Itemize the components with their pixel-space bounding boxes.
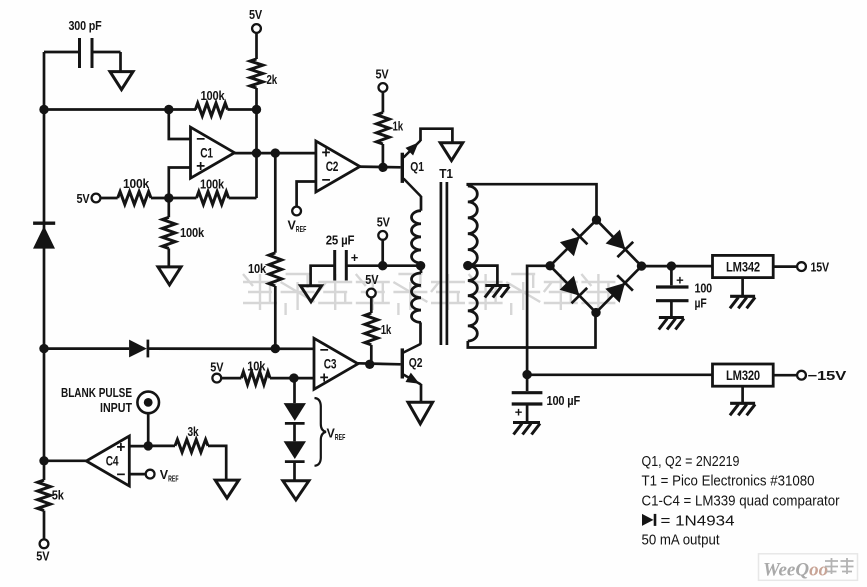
svg-text:1k: 1k [393,119,404,134]
transistor Q2 [401,344,423,385]
svg-text:−15V: −15V [808,368,847,383]
diode bridge D-BR [605,275,633,303]
svg-text:+: + [351,250,359,265]
svg-text:5V: 5V [77,191,90,206]
terminal 5V (1k Q2) [365,272,378,297]
svg-text:T1 = Pico Electronics #31080: T1 = Pico Electronics #31080 [642,473,815,489]
terminal 15V [797,259,829,274]
ground (VREF diodes) [283,481,309,500]
wire C3 output [358,363,401,364]
wire diode row right [148,347,314,350]
resistor R-2k [250,59,278,88]
wire C4 plus input [129,445,148,448]
svg-text:µF: µF [695,296,707,311]
svg-text:+: + [321,145,330,162]
svg-text:5k: 5k [52,488,65,503]
svg-text:3k: 3k [188,424,200,439]
svg-text:WeeQoo: WeeQoo [763,560,828,581]
regulator U-LM320 [713,364,774,386]
note C1-C4 [642,493,840,509]
svg-text:+: + [515,405,523,420]
watermark weeqoo (decorative) [759,554,858,581]
resistor R-5k [38,461,65,511]
resistor R-100k feedback-top [195,88,227,116]
node rail-diode row [39,344,48,353]
node bridge right [637,261,646,270]
wire 5k-5V [43,511,46,540]
resistor R-100k to gnd [162,198,204,267]
wire LM342 out [773,265,797,268]
svg-text:100: 100 [695,281,713,296]
node blank pulse [144,441,153,450]
node primary tap [416,261,425,270]
terminal -15V [797,368,847,383]
svg-text:Q1, Q2 = 2N2219: Q1, Q2 = 2N2219 [642,454,740,470]
svg-text:= 1N4934: = 1N4934 [661,514,735,530]
wire diode row left [44,347,129,350]
op-amp C3 [314,338,358,389]
svg-text:−: − [320,342,329,359]
svg-text:LM320: LM320 [726,368,760,383]
diode D1 (1N4934) [129,340,148,358]
ground (Q2) [408,402,433,424]
ground (3k) [215,480,239,498]
wire to VREF diodes [293,378,296,403]
node +rail cap [667,261,676,270]
resistor R-10k (C3) [241,359,270,385]
note T1 [642,473,815,489]
svg-text:Q2: Q2 [409,355,423,370]
wire Q2 emitter to gnd [420,384,423,402]
wire -rail to LM320 [527,373,712,376]
resistor R-1k (Q2) [365,313,392,345]
resistor R-100k input [118,176,151,204]
svg-text:2k: 2k [267,72,278,87]
node C1 out [252,148,261,157]
wire blank pulse down [147,413,150,446]
diode bridge D-TR [606,230,634,258]
transistor Q1 [401,141,424,197]
wire Q1 emitter to gnd [421,129,453,143]
note 1N4934 [642,514,735,530]
diode bridge D-BL [560,276,588,304]
svg-text:100 µF: 100 µF [547,393,581,408]
diode bridge D-TL [560,229,588,257]
wire C2 minus input [297,182,316,207]
chassis ground (100uF plus) [659,318,684,330]
node C4 out rail [39,456,48,465]
svg-text:1k: 1k [381,322,392,337]
ground (25uF) [301,286,322,302]
resistor R-100k feedback-bot [197,177,229,205]
svg-text:+: + [320,369,329,386]
svg-text:Q1: Q1 [410,159,424,174]
wire 5V to tap node [381,240,384,266]
node C3 out [365,360,374,369]
diode D2 (VREF) [284,403,306,423]
wire LM342 gnd [741,278,744,296]
wire D2-D3 [293,423,296,441]
ground (300 pF) [110,72,133,90]
wire Q1 collector [420,196,423,211]
svg-text:100k: 100k [200,177,225,192]
transformer T1 secondary [468,186,478,341]
wire C4 minus input [129,473,146,476]
node C3 plus [289,373,298,382]
wire C2 output [358,165,400,168]
svg-text:−: − [196,131,205,148]
svg-text:10k: 10k [247,359,266,374]
regulator U-LM342 [713,255,774,277]
wire 3k row [148,446,226,480]
capacitor C-300pF leads [44,52,121,72]
wire left rail [43,52,46,461]
svg-text:10k: 10k [248,261,267,276]
wire LM320 gnd [741,386,744,402]
svg-text:5V: 5V [376,67,389,82]
wire 5V row [100,197,196,200]
terminal 5V (10k C3) [210,360,223,383]
svg-text:100k: 100k [201,88,226,103]
wire LM320 out [773,374,797,377]
op-amp C4 [86,436,129,486]
svg-text:5V: 5V [365,272,378,287]
terminal VREF (C2) [288,207,307,235]
terminal 5V (left row) [77,191,101,206]
wire bridge right to LM342 [642,265,713,268]
node C1 out branch [271,148,280,157]
chassis ground (100uF minus) [513,423,540,435]
node diode row branch [271,344,280,353]
wire 25uF right lead [346,264,382,267]
terminal 5V (2k) [249,7,262,33]
wire x275 vertical [274,153,277,349]
wire C1 plus input [169,168,191,199]
resistor R-1k (Q1) [377,113,404,145]
svg-text:25 µF: 25 µF [326,233,355,248]
wire 10k row [221,377,314,380]
node secondary tap [463,261,472,270]
diode D3 (VREF) [284,441,306,461]
ground (100k) [158,267,181,285]
chassis ground (LM320) [730,403,755,415]
svg-text:50 mA output: 50 mA output [642,532,720,548]
wire C1 minus input [169,110,191,140]
wire x257 vertical [255,110,258,199]
capacitor 25uF [326,233,359,281]
wire Q2 collector [419,322,422,344]
wire top row [44,108,257,111]
svg-text:5V: 5V [377,215,390,230]
resistor R-10k vertical [248,253,282,286]
terminal 5V (center tap) [377,215,390,240]
svg-text:C1-C4 = LM339 quad comparator: C1-C4 = LM339 quad comparator [642,493,840,509]
terminal VREF (C4) [146,468,179,484]
svg-text:REF: REF [296,224,307,234]
node top-right [252,105,261,114]
svg-text:100k: 100k [180,225,205,240]
svg-text:5V: 5V [249,7,262,22]
wire bridge frame [550,220,641,313]
transformer T1 core [441,182,447,345]
capacitor C-300pF [69,18,102,68]
node 25uF-5V [378,261,387,270]
svg-text:−: − [321,172,330,189]
wire 5V-1k Q2 [370,297,373,313]
note output [642,532,720,548]
diode D-rail (1N4934) [33,223,55,248]
wire 1k-node [382,144,385,167]
svg-text:100k: 100k [123,176,150,191]
svg-text:+: + [676,272,684,287]
svg-text:BLANK PULSE: BLANK PULSE [61,386,132,400]
note Q1 Q2 [642,454,740,470]
wire bridge left to -rail [527,266,550,375]
svg-text:LM342: LM342 [726,259,760,274]
watermark center (decorative) [243,274,615,315]
wire 5V-2k [255,33,258,59]
transformer T1 primary lower [411,273,421,322]
terminal 5V (1k Q1) [376,67,389,92]
ground (Q1) [440,143,463,161]
op-amp C1 [191,127,235,178]
wire 25uF left lead [311,266,335,286]
wire 5V-1k [382,92,385,113]
transformer T1 label [439,166,453,181]
svg-text:−: − [116,467,125,484]
terminal 5V (bottom) [36,539,49,563]
op-amp C2 [316,141,360,192]
wire 1k-C3out [370,345,373,364]
wire tap to 5V node [383,264,421,267]
node mid row [164,193,173,202]
svg-text:REF: REF [168,473,179,483]
svg-text:+: + [116,439,125,456]
svg-text:5V: 5V [210,360,223,375]
wire secondary bottom lead [468,313,596,348]
wire secondary tap [468,266,498,285]
resistor R-3k [175,424,208,452]
wire corner to 100k mid [229,197,257,200]
transformer T1 primary upper [412,211,422,263]
wire primary tap segment [420,263,423,273]
wire C1 output row [235,152,316,155]
node top-mid [164,105,173,114]
node bridge top [592,215,601,224]
svg-text:INPUT: INPUT [100,401,132,415]
wire 2k-node [255,88,258,110]
svg-text:+: + [196,158,205,175]
svg-text:300 pF: 300 pF [69,18,102,33]
node bridge left [545,261,554,270]
node -rail [522,370,531,379]
node C2 out [378,163,387,172]
wire C4 output [44,459,86,462]
node bridge bottom [591,308,600,317]
brace VREF [315,398,346,466]
wire D3-gnd [293,462,296,481]
capacitor 100uF (minus) [512,375,580,422]
svg-text:T1: T1 [439,166,453,181]
svg-text:15V: 15V [811,259,830,274]
wire secondary top lead [468,184,597,220]
svg-text:5V: 5V [36,548,49,563]
chassis ground (secondary tap) [485,286,510,298]
capacitor 100uF (plus) [656,266,712,316]
terminal BLANK PULSE INPUT [61,386,159,415]
chassis ground (LM342) [730,296,755,308]
node rail-top row [39,105,48,114]
svg-text:REF: REF [335,432,346,442]
